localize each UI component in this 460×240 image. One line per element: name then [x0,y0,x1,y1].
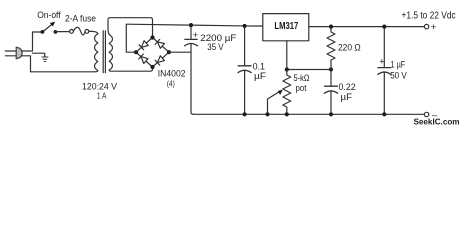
wire adjust node to R1 bottom [287,69,331,71]
svg-text:+: + [193,30,198,40]
switch S1 blade [42,24,52,32]
capacitor C1 curved plate [185,44,198,46]
node R1 bottom [329,67,333,71]
wire ground branch [33,53,45,56]
wire bridge minus to filter cap lead [169,51,191,53]
capacitor C3 bottom lead [330,91,332,115]
svg-text:µF: µF [341,92,353,102]
fuse F1 left terminal [70,30,74,34]
fuse F1 element [73,27,85,35]
svg-text:220 Ω: 220 Ω [338,42,361,52]
capacitor C2 bottom lead [244,70,246,114]
switch S1 contact left [41,30,45,34]
wire U1 output to right terminal [309,26,425,28]
svg-text:+1.5 to 22 Vdc: +1.5 to 22 Vdc [402,10,456,21]
bridge edge bottom-left [136,52,153,67]
svg-text:35 V: 35 V [207,42,223,52]
wire plug lower to transformer primary bottom [22,56,95,72]
node C2 top [243,24,247,28]
svg-text:1 A: 1 A [97,91,107,101]
svg-text:SeekIC.com: SeekIC.com [414,117,460,127]
svg-text:1 µF: 1 µF [391,60,406,70]
plug P1 prong lower [5,55,16,57]
bottom rail [193,113,425,115]
capacitor C4 curved plate [378,72,391,74]
capacitor C1 2200uF top lead [190,25,192,39]
plug P1 prong upper [5,50,16,52]
node R1 top [329,25,333,29]
capacitor C3 curved plate [324,91,337,93]
transformer T1 primary winding [95,34,98,71]
svg-text:On-off: On-off [37,10,61,20]
svg-text:50 V: 50 V [390,70,407,80]
svg-text:(4): (4) [167,79,175,89]
svg-text:+: + [431,22,437,33]
ground [42,57,48,62]
capacitor C2 curved plate [238,70,251,72]
svg-text:LM317: LM317 [274,21,298,32]
transformer T1 primary bottom lead [95,71,98,72]
capacitor C4 top plate [378,67,391,69]
node bridge bottom [150,65,154,69]
svg-text:µF: µF [254,71,267,81]
wire switch to fuse [55,31,69,33]
capacitor C3 top plate [325,85,338,87]
capacitor C2 0.1uF top lead [244,26,246,66]
wire bridge plus to top rail [126,24,262,52]
node C1 top [189,23,193,27]
plug P1 body [16,47,22,59]
capacitor C3 0.22uF top lead [330,70,332,87]
svg-text:+: + [379,57,384,67]
diode D4 bottom-right [155,56,164,65]
node bridge left [134,50,138,54]
node bridge right [167,50,171,54]
capacitor C1 bottom lead to bottom rail [191,43,194,114]
capacitor C1 top plate [185,38,197,40]
regulator U1 LM317 box [263,14,309,41]
bridge edge bottom-right [153,52,170,67]
diode D1 top-left [139,41,148,50]
wire secondary top to bridge top [108,18,153,37]
potentiometer R2 wiper wire [268,92,280,115]
capacitor C4 bottom lead [383,72,385,114]
output terminal minus [424,112,428,116]
svg-text:IN4002: IN4002 [158,68,186,78]
potentiometer R2 wiper arrowhead [278,90,283,95]
node C4 top [382,25,386,29]
transformer T1 secondary winding [109,35,112,71]
node C2 bottom [243,112,247,116]
capacitor C4 1uF top lead [383,27,385,68]
switch S1 contact right [54,30,58,34]
node C3 bottom [329,112,333,116]
output terminal plus [424,24,428,28]
bridge edge top-left [136,38,153,53]
svg-text:2-A fuse: 2-A fuse [65,13,96,23]
wire fuse to transformer primary top [89,31,98,34]
capacitor C2 top plate [238,65,251,67]
node bridge top [150,35,154,39]
wire secondary bottom to bridge bottom [109,69,152,71]
svg-text:0.22: 0.22 [339,82,356,92]
diode D3 bottom-left [139,54,148,63]
wire plug upper to switch riser [22,32,43,51]
svg-text:5-kΩ: 5-kΩ [294,73,310,83]
node pot bottom [285,112,289,116]
node adjust [285,67,289,71]
node C4 bottom [382,112,386,116]
potentiometer R2 5k body [283,70,291,115]
node wiper bottom [265,112,269,116]
resistor R1 220 ohm [327,27,335,70]
diode D2 top-right [155,39,164,48]
switch S1 arrowhead [50,22,55,27]
bridge edge top-right [153,38,170,53]
fuse F1 right terminal [85,30,89,34]
wire U1 adjust pin down [286,41,288,70]
svg-text:pot: pot [296,83,307,93]
transformer T1 core [102,31,104,73]
